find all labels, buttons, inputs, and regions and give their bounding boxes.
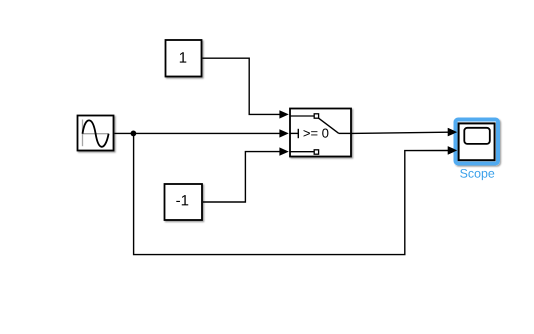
selection frame backing with shadow [454, 118, 500, 166]
wire W2 branch from junction to Scope input 2 [134, 133, 449, 254]
block Constant C1 value 1 [166, 40, 202, 77]
switch input port 3 stub [290, 151, 314, 153]
scope label [460, 169, 494, 180]
arrowhead into Scope input 2 [448, 146, 457, 154]
switch output stub [339, 132, 351, 134]
switch port 1 square [314, 114, 318, 118]
arrowhead into Switch input 3 [279, 147, 288, 155]
wire W4 from Constant2 to Switch input 3 [203, 152, 281, 202]
sine icon curve [83, 120, 109, 146]
wire W1 from Sine Wave to Switch input 2 [115, 132, 281, 134]
switch lever diagonal [319, 118, 339, 133]
block Sine Wave [78, 116, 114, 151]
arrowhead overlays at scope (drawn over blue border) [448, 128, 457, 136]
wire W3 from Constant1 to Switch input 1 [203, 58, 281, 114]
wire W5 from Switch output to Scope input 1 [352, 132, 449, 133]
block Switch [290, 109, 351, 157]
block Constant C2 value -1 [165, 184, 203, 220]
selection highlight border [456, 120, 499, 164]
switch input port 1 stub [290, 115, 314, 117]
scope body [459, 123, 495, 160]
scope screen [464, 128, 490, 144]
switch port 2 tick [297, 129, 299, 138]
switch port 3 square [314, 150, 318, 154]
arrowhead into Switch input 1 [279, 110, 288, 118]
switch input port 2 stub [290, 132, 298, 134]
junction node dot [131, 131, 137, 137]
arrowhead into Scope input 1 [448, 128, 457, 136]
switch threshold label [304, 129, 329, 138]
sine icon axes [82, 120, 84, 147]
block Scope (selected) [454, 118, 500, 181]
arrowhead into Switch input 2 [279, 129, 288, 137]
